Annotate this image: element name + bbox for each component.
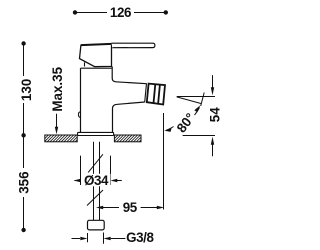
pipe break slash lower: [87, 190, 103, 206]
body side bump: [78, 112, 80, 118]
handle neck tick: [84, 62, 86, 66]
supply pipe right line: [99, 142, 101, 221]
G3/8 left extension tick: [87, 233, 89, 242]
95 left arrowhead: [96, 206, 103, 209]
95 right arrowhead: [157, 206, 164, 209]
54 dimension top arrow: [212, 75, 214, 88]
supply pipe left line: [93, 142, 95, 221]
dia34 right extension line: [110, 156, 112, 185]
svg-text:G3/8: G3/8: [126, 230, 154, 245]
dia34 right arrow: [115, 180, 122, 182]
G3/8 right extension tick: [103, 233, 105, 244]
G3/8 right arrow: [111, 238, 126, 240]
base flange: [78, 132, 114, 135]
svg-text:126: 126: [110, 5, 131, 20]
Max.35 leader arrow: [56, 114, 58, 128]
outlet projection vertical line: [163, 113, 165, 210]
body top edge: [81, 67, 113, 69]
spout end edge: [145, 83, 147, 102]
dia34 left extension line: [80, 156, 82, 185]
dim 356 bottom dot: [21, 228, 25, 232]
dimension 126 line right segment: [134, 12, 166, 14]
faucet body column: [81, 67, 147, 133]
svg-text:130: 130: [19, 79, 34, 101]
54 dimension bottom arrow: [212, 144, 214, 157]
dia34 left arrow: [75, 180, 77, 182]
dimension 126 right dot: [164, 10, 168, 14]
angle ref line horizontal (54 top reference): [177, 96, 215, 98]
95 dimension line: [103, 207, 119, 209]
stream direction slanted line: [177, 97, 202, 104]
perpendicular tick at angle vertex: [201, 93, 205, 107]
G3/8 left arrow: [72, 238, 81, 240]
svg-text:Ø34: Ø34: [84, 173, 109, 188]
54 dimension bottom reference line: [183, 135, 215, 137]
svg-text:54: 54: [207, 107, 222, 122]
dimension 126 line left segment: [75, 12, 107, 14]
label dia 34 backing: [83, 174, 111, 187]
pipe break slash upper: [88, 154, 103, 172]
svg-text:Max.35: Max.35: [50, 66, 65, 111]
connector block: [88, 220, 105, 230]
dimension 126 left dot: [73, 10, 77, 14]
shared dot at deck level: [21, 133, 25, 137]
handle cap: [80, 44, 112, 67]
dim 130 top dot: [21, 41, 25, 45]
80 degree arc lower segment + arrowhead: [166, 127, 174, 131]
svg-text:95: 95: [123, 200, 138, 215]
80 degree arc upper segment + arrowhead: [195, 108, 200, 116]
svg-text:356: 356: [16, 171, 31, 193]
lever bar: [112, 43, 155, 48]
left vertical dimension line (130/356) segments: [23, 44, 25, 77]
aerator (tilted rings): [147, 84, 165, 105]
